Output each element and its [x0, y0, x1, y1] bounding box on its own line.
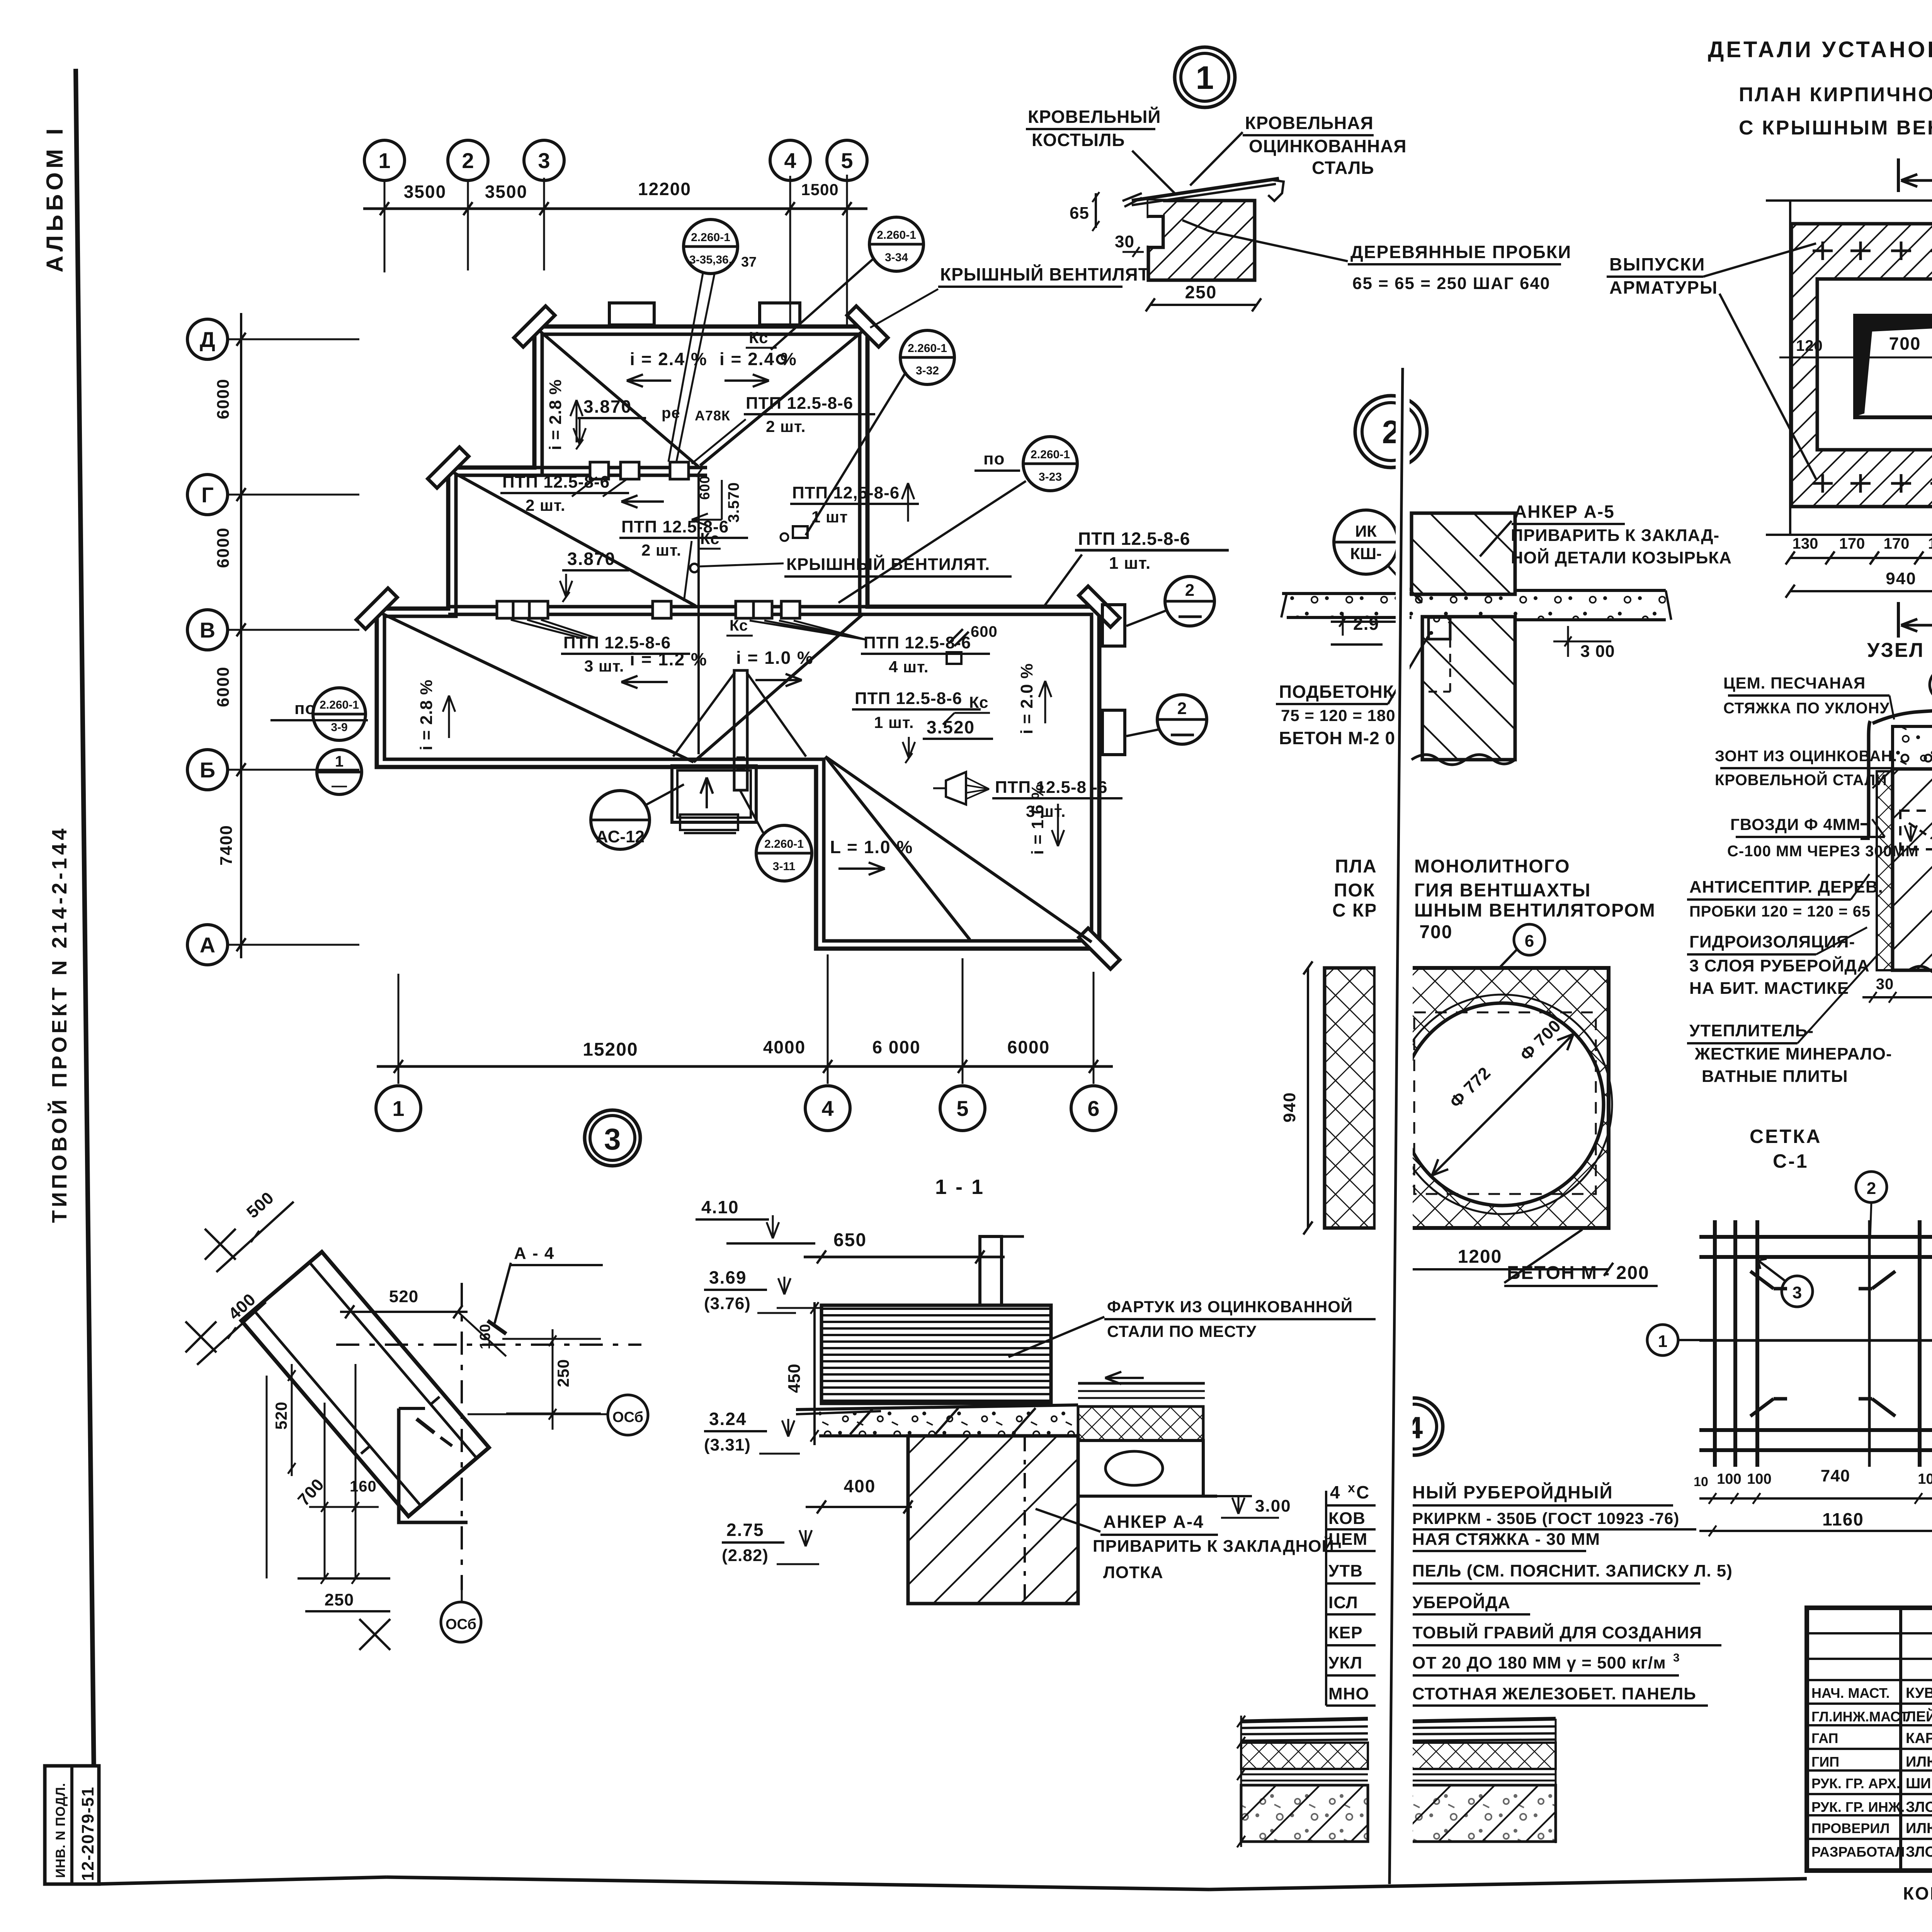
- svg-text:12-2079-51: 12-2079-51: [78, 1786, 97, 1881]
- подбетонка block: [1429, 617, 1450, 639]
- internal roof boundary В (y=1570): [448, 605, 867, 609]
- svg-text:3.520: 3.520: [927, 717, 975, 737]
- svg-text:30: 30: [1115, 232, 1134, 251]
- svg-text:ВЫПУСКИ: ВЫПУСКИ: [1609, 254, 1705, 274]
- dashed anchor + arrow in wall: [1900, 811, 1932, 849]
- svg-text:3-34: 3-34: [885, 251, 908, 264]
- svg-text:120: 120: [1796, 337, 1823, 354]
- svg-text:4: 4: [821, 1096, 833, 1121]
- svg-text:АНКЕР А-5: АНКЕР А-5: [1514, 502, 1615, 522]
- detail 3 corner cross marks: [205, 1229, 236, 1260]
- svg-text:БЕТОН М-2 0: БЕТОН М-2 0: [1279, 728, 1395, 748]
- svg-text:3: 3: [538, 148, 550, 173]
- svg-text:1: 1: [378, 148, 390, 173]
- svg-text:3500: 3500: [485, 182, 527, 202]
- svg-text:ГВОЗДИ Ф 4ММ: ГВОЗДИ Ф 4ММ: [1730, 815, 1861, 833]
- svg-text:5: 5: [841, 148, 853, 173]
- svg-text:ТОВЫЙ ГРАВИЙ ДЛЯ СОЗДАНИЯ: ТОВЫЙ ГРАВИЙ ДЛЯ СОЗДАНИЯ: [1412, 1622, 1702, 1642]
- fold crease white band: [1396, 367, 1410, 850]
- svg-text:А: А: [200, 933, 215, 957]
- svg-text:10: 10: [1694, 1475, 1708, 1489]
- svg-text:7400: 7400: [217, 825, 236, 866]
- svg-text:2: 2: [1185, 581, 1194, 600]
- plan outer break lines: [1789, 201, 1791, 535]
- svg-text:ИЛЮШКИНА: ИЛЮШКИНА: [1906, 1820, 1932, 1837]
- detail mark 2 (double circle): [1355, 396, 1427, 468]
- svg-text:2.260-1: 2.260-1: [877, 229, 916, 241]
- dim 940: [1307, 968, 1309, 1228]
- bottom axis stems: [398, 974, 400, 1084]
- svg-text:ОТ 20 ДО 180 ММ γ = 500 кг/м: ОТ 20 ДО 180 ММ γ = 500 кг/м: [1412, 1653, 1666, 1672]
- узел А: wall with hatch: [1893, 769, 1932, 970]
- svg-text:Кс: Кс: [969, 693, 988, 711]
- mesh bottom dims: [1699, 1497, 1932, 1500]
- svg-text:650: 650: [833, 1230, 867, 1250]
- detail 2: slab-wall joint: [1412, 513, 1515, 594]
- detail 3 dashed axes: [336, 1344, 641, 1346]
- list left vertical edge: [1325, 1491, 1327, 1706]
- section cut marks 2-2: [1897, 158, 1900, 192]
- monolithic cap: [1893, 726, 1932, 769]
- svg-text:160: 160: [350, 1478, 377, 1495]
- svg-text:3-11: 3-11: [773, 860, 795, 873]
- svg-text:3-32: 3-32: [916, 364, 939, 377]
- svg-text:2 шт.: 2 шт.: [641, 541, 682, 559]
- detail mark 4 (double circle, cut by fold): [1386, 1398, 1443, 1455]
- svg-text:15200: 15200: [583, 1039, 638, 1060]
- svg-text:ПЛАН КИРПИЧНОЙ ВЕНТШАХТЫ: ПЛАН КИРПИЧНОЙ ВЕНТШАХТЫ: [1739, 83, 1932, 106]
- svg-text:4: 4: [784, 148, 796, 173]
- ПТП plate boxes on boundaries: [590, 462, 609, 479]
- svg-text:КРОВЕЛЬНАЯ: КРОВЕЛЬНАЯ: [1245, 113, 1374, 133]
- svg-text:АС-12: АС-12: [596, 827, 645, 846]
- svg-text:А78К: А78К: [695, 408, 730, 423]
- svg-text:1: 1: [1658, 1332, 1667, 1351]
- svg-text:МОНОЛИТНОГО: МОНОЛИТНОГО: [1414, 856, 1570, 877]
- svg-text:ПОДБЕТОНК: ПОДБЕТОНК: [1279, 682, 1394, 702]
- svg-text:ВАТНЫЕ ПЛИТЫ: ВАТНЫЕ ПЛИТЫ: [1702, 1067, 1848, 1086]
- svg-text:3 00: 3 00: [1580, 642, 1615, 661]
- svg-text:РАЗРАБОТАЛ: РАЗРАБОТАЛ: [1811, 1844, 1905, 1860]
- svg-text:6000: 6000: [214, 378, 233, 419]
- svg-text:170: 170: [1884, 535, 1910, 552]
- list underlines: [1326, 1504, 1673, 1507]
- svg-text:МНО: МНО: [1328, 1684, 1369, 1703]
- svg-text:С КРЫШНЫМ ВЕНТИЛЯТОРОМ Ф 70: С КРЫШНЫМ ВЕНТИЛЯТОРОМ Ф 700: [1739, 117, 1932, 139]
- svg-text:ОСб: ОСб: [612, 1409, 643, 1425]
- svg-text:С КР: С КР: [1332, 900, 1378, 921]
- svg-text:5: 5: [956, 1096, 968, 1121]
- svg-text:РУК. ГР. АРХ.: РУК. ГР. АРХ.: [1811, 1776, 1900, 1791]
- detail 3: rotated slab plan: [241, 1252, 489, 1516]
- title block: staff column: [1899, 1608, 1902, 1871]
- svg-text:400: 400: [844, 1476, 876, 1496]
- svg-text:КОСТЫЛЬ: КОСТЫЛЬ: [1032, 130, 1125, 150]
- узел А bottom dims 30 250: [1862, 996, 1932, 998]
- svg-text:КШ-: КШ-: [1350, 544, 1382, 563]
- roof hatch ladder rect: [734, 670, 747, 790]
- parapet upstand: [980, 1236, 1002, 1305]
- svg-text:700: 700: [1889, 333, 1921, 354]
- fold crease line: [1389, 368, 1403, 1884]
- svg-text:2: 2: [462, 148, 474, 173]
- svg-text:3.69: 3.69: [709, 1267, 747, 1287]
- svg-text:КАРАБЛЕВ: КАРАБЛЕВ: [1906, 1730, 1932, 1747]
- leader circle 2.260-1/3-11: [756, 825, 812, 881]
- svg-text:С-100 ММ ЧЕРЕЗ 300ММ: С-100 ММ ЧЕРЕЗ 300ММ: [1727, 843, 1919, 860]
- svg-text:СЕТКА: СЕТКА: [1750, 1126, 1822, 1147]
- svg-text:2: 2: [1867, 1179, 1876, 1198]
- svg-text:ШИШЕНКОВА: ШИШЕНКОВА: [1906, 1776, 1932, 1792]
- svg-text:ПРОВЕРИЛ: ПРОВЕРИЛ: [1811, 1820, 1890, 1836]
- bottom dimension line: [377, 1065, 1113, 1068]
- svg-text:НЫЙ РУБЕРОЙДНЫЙ: НЫЙ РУБЕРОЙДНЫЙ: [1412, 1482, 1613, 1502]
- leader circle 2.260-1/3-35,36,37: [684, 219, 738, 274]
- detail mark 1 (double circle): [1175, 47, 1235, 107]
- svg-text:250: 250: [1185, 282, 1217, 302]
- diameter arrows: [1432, 1034, 1573, 1175]
- svg-text:Кс: Кс: [700, 529, 719, 548]
- svg-text:3.870: 3.870: [567, 549, 616, 569]
- svg-text:i = 1.2 %: i = 1.2 %: [630, 649, 707, 669]
- svg-text:6 000: 6 000: [872, 1037, 920, 1057]
- svg-text:3-23: 3-23: [1039, 471, 1062, 483]
- АС-12 louvre box: [672, 766, 756, 822]
- svg-text:АРМАТУРЫ: АРМАТУРЫ: [1609, 277, 1718, 298]
- svg-text:УБЕРОЙДА: УБЕРОЙДА: [1412, 1592, 1510, 1612]
- svg-text:i = 1.0 %: i = 1.0 %: [736, 648, 814, 668]
- svg-text:А - 4: А - 4: [514, 1244, 554, 1263]
- svg-text:КЕР: КЕР: [1328, 1623, 1363, 1642]
- svg-text:12200: 12200: [638, 179, 691, 199]
- inventory box: Инв № подл / 12-2079-51: [45, 1766, 99, 1884]
- svg-text:С: С: [1356, 1482, 1370, 1502]
- svg-text:ЖЕСТКИЕ МИНЕРАЛО-: ЖЕСТКИЕ МИНЕРАЛО-: [1694, 1044, 1892, 1063]
- svg-text:2: 2: [1177, 699, 1187, 718]
- svg-text:ДЕТАЛИ УСТАНОВКИ КРЫШНОГО В: ДЕТАЛИ УСТАНОВКИ КРЫШНОГО ВЕНТИЛЯТОРА: [1708, 37, 1932, 62]
- umbrella vent symbol + ПТП 3шт: [946, 772, 966, 804]
- svg-text:IСЛ: IСЛ: [1328, 1593, 1358, 1612]
- svg-text:100: 100: [1747, 1471, 1771, 1487]
- svg-text:ЗЛОБИНСКАЯ: ЗЛОБИНСКАЯ: [1906, 1799, 1932, 1815]
- roof corner marks: [514, 306, 555, 347]
- monolithic plan left strip: [1325, 968, 1375, 1228]
- mesh bars: [1699, 1235, 1932, 1239]
- detail 2 bottom squiggle: [1412, 755, 1515, 765]
- svg-text:ОЦИНКОВАННАЯ: ОЦИНКОВАННАЯ: [1249, 136, 1406, 156]
- roof plan: left axis circles Д Г В Б А: [187, 319, 228, 359]
- svg-text:(3.31): (3.31): [704, 1435, 751, 1454]
- mid arrow left: [621, 500, 664, 503]
- svg-text:ПТП 12.5-8 -6: ПТП 12.5-8 -6: [995, 778, 1107, 797]
- svg-text:3: 3: [1673, 1651, 1680, 1664]
- svg-text:КРОВЕЛЬНОЙ СТАЛИ: КРОВЕЛЬНОЙ СТАЛИ: [1715, 771, 1887, 789]
- svg-text:ГЛ.ИНЖ.МАСТ: ГЛ.ИНЖ.МАСТ: [1811, 1709, 1908, 1725]
- svg-text:940: 940: [1886, 569, 1916, 588]
- svg-text:2.75: 2.75: [726, 1520, 764, 1540]
- rebar cross marks: [1813, 250, 1833, 252]
- svg-text:ЗЛОБИНСКАЯ: ЗЛОБИНСКАЯ: [1906, 1844, 1932, 1860]
- svg-text:ПРИВАРИТЬ К ЗАКЛАДНОЙ: ПРИВАРИТЬ К ЗАКЛАДНОЙ: [1093, 1536, 1334, 1556]
- leader circle 2.260-1/3-32: [900, 330, 954, 384]
- detail 3 ось circles: [608, 1395, 648, 1435]
- svg-text:1500: 1500: [801, 180, 838, 199]
- svg-text:3.24: 3.24: [709, 1409, 747, 1429]
- svg-text:3 СЛОЯ РУБЕРОЙДА: 3 СЛОЯ РУБЕРОЙДА: [1689, 956, 1870, 975]
- detail 3 dim 160 rotated: [458, 1312, 506, 1356]
- svg-text:ПРИВАРИТЬ К ЗАКЛАД-: ПРИВАРИТЬ К ЗАКЛАД-: [1511, 526, 1719, 545]
- svg-text:1 шт.: 1 шт.: [874, 713, 914, 731]
- leader circles 6 and 7: [1930, 668, 1932, 701]
- svg-text:30: 30: [1876, 976, 1894, 993]
- фартук block (horizontal-line fill): [821, 1305, 1051, 1403]
- svg-text:L = 1.0 %: L = 1.0 %: [830, 837, 913, 857]
- svg-text:100: 100: [1717, 1471, 1741, 1487]
- svg-text:740: 740: [1821, 1466, 1850, 1485]
- svg-text:(3.76): (3.76): [704, 1294, 751, 1313]
- left vertical dimension chain: [240, 313, 242, 958]
- svg-text:75 = 120 = 180: 75 = 120 = 180: [1281, 706, 1396, 724]
- svg-text:4000: 4000: [763, 1037, 806, 1057]
- svg-text:—: —: [332, 777, 347, 794]
- detail 3 right dim 250: [552, 1329, 554, 1430]
- dashed square: [1414, 1012, 1596, 1194]
- svg-text:ГИДРОИЗОЛЯЦИЯ-: ГИДРОИЗОЛЯЦИЯ-: [1689, 932, 1855, 951]
- svg-text:СТЯЖКА ПО УКЛОНУ: СТЯЖКА ПО УКЛОНУ: [1723, 700, 1889, 717]
- svg-text:6: 6: [1525, 932, 1534, 951]
- svg-text:КРЫШНЫЙ ВЕНТИЛЯТ: КРЫШНЫЙ ВЕНТИЛЯТ: [940, 264, 1150, 284]
- svg-text:2 шт.: 2 шт.: [526, 496, 566, 514]
- svg-text:37: 37: [741, 254, 757, 270]
- svg-text:Г: Г: [201, 483, 214, 507]
- mesh leader circles 1 2 3: [1856, 1172, 1887, 1202]
- svg-text:АЛЬБОМ I: АЛЬБОМ I: [42, 125, 68, 272]
- svg-text:по: по: [983, 449, 1005, 468]
- mesh corner hooks: [1750, 1271, 1774, 1289]
- detail 3 anchor dashes: [488, 1321, 506, 1334]
- svg-text:2.260-1: 2.260-1: [908, 342, 947, 355]
- title block frame: [1807, 1608, 1932, 1871]
- svg-text:940: 940: [1280, 1092, 1299, 1122]
- svg-text:ЗОНТ ИЗ ОЦИНКОВАН.: ЗОНТ ИЗ ОЦИНКОВАН.: [1715, 748, 1897, 765]
- svg-text:520: 520: [272, 1401, 290, 1430]
- svg-text:ТИПОВОЙ ПРОЕКТ N 214-2-144: ТИПОВОЙ ПРОЕКТ N 214-2-144: [48, 825, 71, 1223]
- svg-text:600: 600: [697, 475, 713, 500]
- svg-text:Б: Б: [200, 758, 215, 782]
- svg-text:ОСб: ОСб: [446, 1616, 476, 1633]
- svg-text:i = 2.8 %: i = 2.8 %: [546, 379, 565, 450]
- svg-text:СТОТНАЯ ЖЕЛЕЗОБЕТ. ПАНЕЛЬ: СТОТНАЯ ЖЕЛЕЗОБЕТ. ПАНЕЛЬ: [1412, 1684, 1696, 1703]
- roof plan: top axis circles 1-5: [364, 140, 405, 180]
- svg-text:АНКЕР А-4: АНКЕР А-4: [1103, 1512, 1204, 1532]
- svg-text:3.00: 3.00: [1255, 1497, 1291, 1515]
- svg-text:НОЙ ДЕТАЛИ КОЗЫРЬКА: НОЙ ДЕТАЛИ КОЗЫРЬКА: [1511, 548, 1732, 567]
- vent shaft plan: brick walls: [1791, 224, 1932, 507]
- bottom axis circles: [376, 1086, 421, 1131]
- svg-text:УКЛ: УКЛ: [1328, 1653, 1362, 1672]
- circle opening Ф700: [1401, 1003, 1604, 1206]
- svg-text:3500: 3500: [404, 182, 446, 202]
- svg-text:65 = 65 = 250 ШАГ 640: 65 = 65 = 250 ШАГ 640: [1352, 274, 1550, 293]
- svg-text:520: 520: [389, 1287, 418, 1306]
- dim 450: [813, 1302, 816, 1445]
- svg-text:УЗЕЛ „А‘ М 1:10: УЗЕЛ „А‘ М 1:10: [1867, 639, 1932, 662]
- svg-text:450: 450: [785, 1364, 804, 1393]
- svg-text:ПТП 12.5-8-6: ПТП 12.5-8-6: [855, 689, 962, 708]
- svg-text:6: 6: [1087, 1096, 1099, 1121]
- top axis stems: [384, 180, 386, 272]
- svg-text:НАЯ СТЯЖКА - 30 ММ: НАЯ СТЯЖКА - 30 ММ: [1412, 1530, 1600, 1549]
- svg-text:3 шт.: 3 шт.: [584, 657, 624, 675]
- svg-text:3: 3: [1793, 1283, 1802, 1302]
- svg-text:i = 2.8 %: i = 2.8 %: [417, 679, 436, 750]
- svg-text:2.260-1: 2.260-1: [320, 699, 359, 711]
- svg-text:1160: 1160: [1822, 1509, 1864, 1529]
- sheet bottom frame line: [95, 1877, 386, 1884]
- leader circle 6: [1514, 924, 1545, 955]
- svg-text:РУК. ГР. ИНЖ.: РУК. ГР. ИНЖ.: [1811, 1799, 1905, 1815]
- svg-text:6000: 6000: [214, 527, 233, 568]
- svg-text:1 - 1: 1 - 1: [935, 1175, 985, 1199]
- svg-text:ПТП 12,5-8-6: ПТП 12,5-8-6: [792, 483, 900, 502]
- svg-text:ГИП: ГИП: [1811, 1754, 1839, 1770]
- sheet left frame line: [76, 69, 95, 1884]
- svg-text:С-1: С-1: [1773, 1150, 1809, 1172]
- svg-text:2 шт.: 2 шт.: [766, 417, 806, 435]
- roof drainage divide vertical: [697, 475, 700, 754]
- svg-text:ИНВ. N ПОДЛ.: ИНВ. N ПОДЛ.: [53, 1783, 68, 1878]
- right roof layers: [1078, 1382, 1205, 1385]
- АС-12 leader circle: [591, 791, 650, 849]
- stack end ticks: [1237, 1716, 1245, 1727]
- svg-text:СТАЛИ ПО МЕСТУ: СТАЛИ ПО МЕСТУ: [1107, 1322, 1257, 1340]
- svg-text:1 шт.: 1 шт.: [1109, 554, 1151, 573]
- svg-text:170: 170: [1839, 535, 1865, 552]
- roof chimney stubs on top edge: [609, 303, 654, 325]
- svg-text:2.260-1: 2.260-1: [691, 231, 730, 244]
- svg-text:2.260-1: 2.260-1: [764, 838, 804, 850]
- leader circle 2.260-1/3-34: [869, 217, 923, 271]
- center axis line: [1779, 357, 1932, 359]
- svg-text:1: 1: [392, 1096, 404, 1121]
- svg-text:1200: 1200: [1458, 1247, 1502, 1267]
- svg-text:КРОВЕЛЬНЫЙ: КРОВЕЛЬНЫЙ: [1028, 107, 1161, 127]
- wall block: [908, 1436, 1078, 1604]
- svg-text:ЦЕМ. ПЕСЧАНАЯ: ЦЕМ. ПЕСЧАНАЯ: [1723, 674, 1866, 692]
- dim 1200: [1389, 1268, 1609, 1270]
- screed band under фартук: [819, 1406, 1078, 1436]
- detail 3 extension dim lines upper-left: [216, 1202, 294, 1272]
- svg-text:ПТП 12.5-8-6: ПТП 12.5-8-6: [502, 473, 610, 492]
- svg-text:250: 250: [554, 1359, 572, 1387]
- svg-text:ПРОБКИ 120 = 120 = 65: ПРОБКИ 120 = 120 = 65: [1689, 903, 1871, 920]
- leader circle 1/-: [317, 750, 362, 794]
- svg-text:2.9: 2.9: [1353, 614, 1379, 634]
- svg-text:4.10: 4.10: [701, 1197, 739, 1217]
- svg-text:УТВ: УТВ: [1328, 1561, 1363, 1580]
- svg-text:i = 2.0 %: i = 2.0 %: [1017, 663, 1036, 734]
- svg-text:КОПИРОВАЛ :: КОПИРОВАЛ :: [1903, 1883, 1932, 1903]
- top dimension line with ticks: [363, 207, 867, 210]
- svg-text:3: 3: [604, 1122, 621, 1156]
- 2-flag section circles right of wing: [1102, 605, 1125, 646]
- svg-text:1: 1: [1196, 60, 1214, 96]
- insulation strip: [1877, 771, 1893, 970]
- svg-text:ФАРТУК ИЗ ОЦИНКОВАННОЙ: ФАРТУК ИЗ ОЦИНКОВАННОЙ: [1107, 1297, 1353, 1316]
- detail 3 dims 520/700/160/250/250: [291, 1364, 293, 1476]
- svg-text:ПТП 12.5-8-6: ПТП 12.5-8-6: [1078, 529, 1190, 549]
- svg-text:СТАЛЬ: СТАЛЬ: [1312, 158, 1374, 178]
- svg-text:170: 170: [1928, 535, 1932, 552]
- internal roof boundary Г (y=1210): [534, 466, 707, 469]
- svg-text:х: х: [1348, 1481, 1355, 1495]
- svg-text:2.260-1: 2.260-1: [1031, 448, 1070, 461]
- detail 3 dim 520 horizontal: [340, 1311, 468, 1313]
- svg-text:130: 130: [1793, 535, 1818, 552]
- svg-text:3.570: 3.570: [725, 482, 742, 522]
- monolithic plan main square: [1389, 968, 1609, 1228]
- svg-text:) 700: ) 700: [1406, 922, 1452, 942]
- svg-text:ЛОТКА: ЛОТКА: [1103, 1563, 1163, 1582]
- zinc apron line: [1872, 709, 1932, 723]
- svg-text:ШНЫМ ВЕНТИЛЯТОРОМ: ШНЫМ ВЕНТИЛЯТОРОМ: [1414, 900, 1656, 921]
- svg-text:600: 600: [971, 623, 998, 640]
- svg-text:В: В: [200, 618, 215, 642]
- svg-text:КУВШИННИКОВ: КУВШИННИКОВ: [1906, 1685, 1932, 1701]
- узел А bottom squiggle: [1909, 966, 1932, 974]
- duct hole with black wedge: [1855, 316, 1932, 417]
- svg-text:ГАП: ГАП: [1811, 1730, 1838, 1746]
- svg-text:ИЛЮШКИНА: ИЛЮШКИНА: [1906, 1754, 1932, 1770]
- svg-text:4 шт.: 4 шт.: [889, 658, 929, 676]
- svg-text:Кс: Кс: [730, 617, 748, 634]
- svg-text:250: 250: [325, 1590, 354, 1609]
- svg-text:6000: 6000: [214, 666, 233, 707]
- svg-text:100: 100: [1918, 1471, 1932, 1487]
- svg-text:(2.82): (2.82): [722, 1546, 769, 1565]
- svg-text:3-9: 3-9: [331, 721, 347, 734]
- svg-text:РКИРКМ - 350Б (ГОСТ 10923 -76: РКИРКМ - 350Б (ГОСТ 10923 -76): [1412, 1509, 1679, 1527]
- svg-text:УТЕПЛИТЕЛЬ-: УТЕПЛИТЕЛЬ-: [1689, 1021, 1814, 1040]
- svg-text:6000: 6000: [1007, 1037, 1050, 1057]
- detail 3 inner square: [399, 1408, 468, 1522]
- roof outline (stepped parapet, double line): [377, 327, 1099, 949]
- svg-text:1: 1: [335, 753, 344, 770]
- svg-text:КРЫШНЫЙ ВЕНТИЛЯТ.: КРЫШНЫЙ ВЕНТИЛЯТ.: [786, 554, 990, 574]
- svg-text:ДЕРЕВЯННЫЕ ПРОБКИ: ДЕРЕВЯННЫЕ ПРОБКИ: [1350, 242, 1571, 262]
- svg-text:ПЕЛЬ (СМ. ПОЯСНИТ. ЗАПИСКУ Л.: ПЕЛЬ (СМ. ПОЯСНИТ. ЗАПИСКУ Л. 5): [1412, 1561, 1733, 1580]
- svg-text:НА БИТ. МАСТИКЕ: НА БИТ. МАСТИКЕ: [1689, 979, 1849, 998]
- plan bottom dims: [1790, 557, 1932, 559]
- svg-text:НАЧ. МАСТ.: НАЧ. МАСТ.: [1811, 1685, 1890, 1701]
- detail 1: eave section drawing: [1148, 201, 1255, 280]
- detail 2 leader circle ИК/КШ: [1334, 510, 1398, 574]
- svg-text:Д: Д: [200, 327, 215, 352]
- roof valley diagonals: [539, 330, 699, 467]
- svg-text:3-35,36,: 3-35,36,: [689, 253, 732, 266]
- svg-text:ЦЕМ: ЦЕМ: [1328, 1530, 1367, 1549]
- svg-text:ИК: ИК: [1355, 522, 1377, 540]
- svg-text:3.870: 3.870: [583, 396, 632, 417]
- svg-text:ГИЯ ВЕНТШАХТЫ: ГИЯ ВЕНТШАХТЫ: [1414, 880, 1591, 901]
- detail mark 3 (double circle): [585, 1110, 640, 1166]
- svg-text:65: 65: [1070, 204, 1089, 223]
- layer stacks below (left): [1241, 1719, 1368, 1721]
- svg-text:Кс: Кс: [749, 328, 768, 347]
- svg-text:КОВ: КОВ: [1328, 1509, 1366, 1528]
- svg-text:4: 4: [1330, 1482, 1341, 1502]
- svg-text:ЛЕЙЗЕРОВИЧ: ЛЕЙЗЕРОВИЧ: [1906, 1708, 1932, 1725]
